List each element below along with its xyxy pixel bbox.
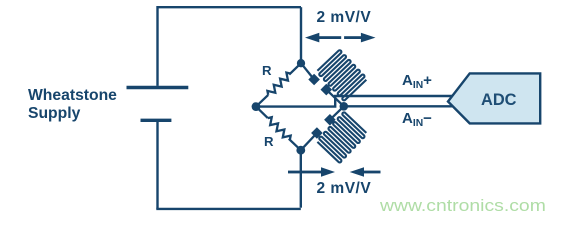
- wire right vertical to top node: [300, 7, 302, 63]
- arrow bottom-left (strain direction, points right/inward): [288, 171, 322, 174]
- label 2 mV/V top: [317, 9, 372, 27]
- battery V1 top plate (long, +): [127, 86, 189, 89]
- arrow top-right (strain direction, points right): [361, 33, 376, 43]
- ADC block U1: [448, 73, 540, 123]
- wire lead top node to SG1 pad: [301, 63, 314, 79]
- SG1 solder pad 2: [321, 84, 333, 96]
- wire lead SG2 pad to right node: [330, 106, 344, 120]
- node top junction dot: [297, 59, 305, 67]
- resistor R1 (top-left bridge arm): [256, 63, 301, 106]
- wire lead bottom node to SG2 pad: [301, 133, 317, 150]
- label 2 mV/V bottom: [317, 180, 372, 198]
- SG2 solder pad 2: [324, 114, 336, 126]
- battery V1 bottom plate (short, -): [141, 119, 172, 122]
- wire bottom rail: [156, 208, 300, 210]
- SG1 solder pad 1: [308, 74, 320, 86]
- label Wheatstone Supply: [28, 87, 117, 123]
- node bottom junction dot: [296, 146, 305, 155]
- wire left vertical lower: [156, 121, 158, 209]
- watermark www.cntronics.com: [380, 196, 546, 216]
- wire lead SG1 pad to right node: [326, 90, 344, 107]
- arrow top-left (strain direction, points left): [305, 33, 319, 43]
- SG1 serpentine grid: [316, 50, 367, 101]
- label R1 value R: [262, 63, 272, 78]
- resistor R2 (bottom-left bridge arm): [256, 107, 301, 151]
- strain gauge SG2 (bottom-right bridge arm): [301, 106, 368, 163]
- SG2 solder pad 1: [311, 127, 323, 139]
- SG2 serpentine grid: [316, 112, 367, 163]
- wire middle output from left node with jog up to AIN+ line: [256, 96, 453, 107]
- wire left vertical upper: [156, 6, 158, 86]
- node right junction dot: [340, 102, 349, 111]
- strain gauge SG1 (top-right bridge arm): [301, 50, 367, 107]
- label ADC: [481, 91, 517, 110]
- label net AIN+: [402, 72, 432, 91]
- wire AIN- from right node to ADC: [344, 105, 453, 107]
- node left junction dot: [252, 102, 261, 111]
- label net AIN-: [402, 110, 432, 129]
- label R2 value R: [264, 134, 274, 149]
- wire top rail: [158, 6, 302, 8]
- wire right vertical from bottom node: [300, 150, 302, 208]
- arrow bottom-right (strain direction, points left/inward): [350, 167, 364, 177]
